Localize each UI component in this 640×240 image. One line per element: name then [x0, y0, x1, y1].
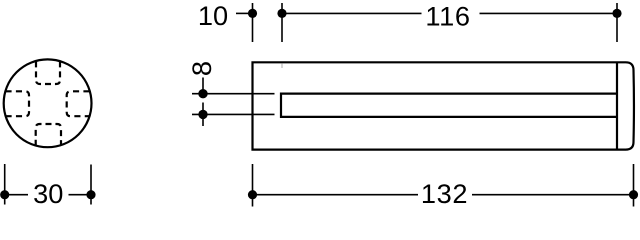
svg-text:116: 116 — [425, 0, 470, 31]
hidden groove, right (dashed) — [67, 91, 90, 116]
dim 10/116: shared witness line — [281, 3, 283, 42]
dim 10: left witness line — [252, 3, 254, 42]
dim 8: lower witness line — [202, 103, 204, 127]
dim 132: right witness line — [633, 164, 635, 207]
dim 30: left witness line — [4, 164, 6, 205]
svg-text:132: 132 — [421, 178, 468, 209]
dim 132: dimension line right segment — [472, 194, 634, 196]
dim 8: upper leader to slot — [192, 93, 275, 95]
dim 8: lower leader to slot — [192, 113, 275, 115]
slot in bar (open to end cap) — [281, 94, 617, 117]
dim 132: left dot — [248, 190, 257, 199]
hidden groove, top (dashed) — [36, 61, 60, 84]
dim 10/116: shared dot — [277, 9, 286, 18]
hidden groove, left (dashed) — [6, 91, 30, 116]
dim 30: dimension line left segment — [5, 194, 28, 196]
dim 30: dimension line right segment — [69, 194, 92, 196]
dim 132: dimension line left segment — [253, 194, 419, 196]
dim 132: left witness line — [252, 164, 254, 207]
svg-text:8: 8 — [186, 61, 217, 76]
svg-text:30: 30 — [33, 178, 63, 209]
end cap joint line — [616, 62, 618, 149]
dim 132: right dot — [629, 190, 638, 199]
dim 30: right dot — [86, 190, 95, 199]
bar outline (side view) with rounded end cap — [253, 62, 634, 149]
dim 8: upper dot — [198, 89, 207, 98]
dim 10: left dot — [248, 9, 257, 18]
dim 116: right witness line — [616, 3, 618, 42]
dim 8: text (rotated) — [186, 61, 217, 76]
dim 116: dimension line right segment — [480, 12, 618, 14]
svg-text:10: 10 — [198, 0, 228, 31]
hidden groove, bottom (dashed) — [36, 124, 61, 146]
dim 30: right witness line — [90, 165, 92, 205]
profile circle (section view) — [4, 59, 92, 147]
dim 30: left dot — [0, 190, 9, 199]
dim 116: dimension line left segment — [282, 12, 422, 14]
dim 10: leader from text to dot — [236, 12, 251, 14]
dim 10/116: shared witness tick into bar — [281, 63, 283, 68]
dim 8: lower dot — [198, 110, 207, 119]
dim 116: right dot — [612, 9, 621, 18]
dim 8: upper witness line — [202, 78, 204, 98]
